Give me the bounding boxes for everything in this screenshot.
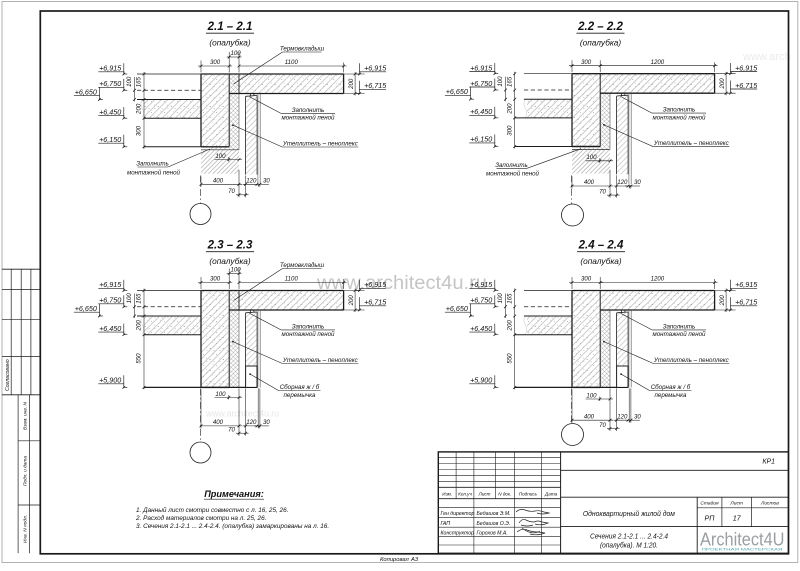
svg-text:Лист: Лист xyxy=(478,491,491,496)
elevation mark +5,900 xyxy=(469,375,498,388)
svg-text:Взам. инв. N: Взам. инв. N xyxy=(23,402,29,430)
title block grid xyxy=(438,452,788,553)
svg-text:(опалубка). М 1:20.: (опалубка). М 1:20. xyxy=(600,542,658,550)
left slab (concrete) 2.3 xyxy=(144,316,201,335)
slab and wall outline 2.1 xyxy=(137,73,201,75)
lower left wall edge 2.4 xyxy=(515,386,628,388)
left dimension chain 2.3 xyxy=(126,289,145,390)
dimension 1200 2.4 xyxy=(600,282,717,284)
elevation mark +6,915 xyxy=(356,63,387,75)
dimension 100 under wall 2.1 xyxy=(215,153,243,162)
left slab bottom edge 2.1 xyxy=(144,117,201,119)
svg-text:Термовкладыш: Термовкладыш xyxy=(280,262,325,269)
svg-text:+6,915: +6,915 xyxy=(364,280,387,289)
masonry below wall 2.2 xyxy=(572,150,610,174)
stage values xyxy=(704,514,741,523)
elevation mark +6,915 xyxy=(727,280,758,292)
elevation mark +6,150 xyxy=(469,134,498,147)
svg-text:30: 30 xyxy=(263,419,270,426)
svg-text:Согласовано: Согласовано xyxy=(5,359,11,391)
slab and wall outline 2.2 xyxy=(524,73,572,75)
svg-text:100: 100 xyxy=(215,153,226,160)
slab thickness dimension 200 2.4 xyxy=(715,289,736,313)
title block outline xyxy=(438,452,788,553)
left slab bottom edge 2.3 xyxy=(144,334,201,336)
svg-text:100: 100 xyxy=(497,76,504,87)
svg-text:+6,650: +6,650 xyxy=(446,304,468,313)
dimension 30 2.4 xyxy=(625,388,641,422)
svg-text:+6,150: +6,150 xyxy=(99,135,121,144)
svg-text:120: 120 xyxy=(246,178,257,185)
svg-text:(опалубка): (опалубка) xyxy=(580,256,622,266)
svg-text:+6,650: +6,650 xyxy=(75,88,97,97)
svg-text:165: 165 xyxy=(507,293,514,304)
dimension 100 under wall 2.2 xyxy=(586,154,614,163)
top dimension extension lines 2.4 xyxy=(571,277,573,289)
level line +6,650 2.2 xyxy=(524,98,572,100)
svg-text:1200: 1200 xyxy=(651,276,665,283)
lintel (precast r/c) 2.4 xyxy=(617,366,628,387)
label insulation penoplex 2.4 xyxy=(603,341,730,364)
svg-text:200: 200 xyxy=(136,320,143,332)
svg-text:1. Данный лист смотри совмест: 1. Данный лист смотри совместно с л. 16,… xyxy=(136,506,288,514)
elevation mark +6,915 xyxy=(356,280,387,292)
elevation mark +6,915 xyxy=(98,63,127,75)
dimension 100 (thermal insert) 2.3 xyxy=(227,273,242,275)
top dimension extension lines 2.2 xyxy=(571,60,573,72)
stage header xyxy=(700,501,779,507)
svg-text:N док.: N док. xyxy=(498,491,511,496)
left stamp table (lower) xyxy=(18,395,40,554)
svg-text:Горохов М.А.: Горохов М.А. xyxy=(477,530,508,536)
svg-text:Конструктор: Конструктор xyxy=(441,530,475,536)
svg-text:100: 100 xyxy=(215,391,226,398)
elevation mark +6,650 xyxy=(445,304,474,318)
insulation strip (penoplex) 2.3 xyxy=(229,291,239,388)
label thermal insert 2.1 xyxy=(234,46,325,85)
svg-text:2.4 – 2.4: 2.4 – 2.4 xyxy=(578,240,624,252)
foam joint under wall 2.2 xyxy=(572,149,610,151)
elevation mark +6,750 xyxy=(469,295,498,308)
elevation mark +6,750 xyxy=(98,295,127,308)
svg-text:+6,450: +6,450 xyxy=(470,324,492,333)
svg-text:+6,450: +6,450 xyxy=(470,107,492,116)
left stamp table (upper) xyxy=(2,269,40,395)
slab thickness dimension 200 2.3 xyxy=(344,289,365,313)
svg-text:+6,450: +6,450 xyxy=(99,107,121,116)
brick facing 120 strip 2.2 xyxy=(617,96,628,174)
svg-text:КР1: КР1 xyxy=(762,458,775,465)
svg-text:+5,900: +5,900 xyxy=(99,376,121,385)
svg-text:100: 100 xyxy=(231,267,242,274)
dimension 300 2.2 xyxy=(569,65,603,67)
dimension 400 2.4 xyxy=(571,388,613,431)
section title 2.4 xyxy=(577,240,625,266)
svg-text:Утеплитель – пеноплекс: Утеплитель – пеноплекс xyxy=(653,357,730,364)
level line +6,750 (dashed) 2.3 xyxy=(137,306,201,308)
svg-text:монтажной пеной: монтажной пеной xyxy=(486,171,540,178)
outer facing 30 lines 2.2 xyxy=(628,94,630,185)
svg-text:+6,150: +6,150 xyxy=(470,135,492,144)
dimension 30 2.3 xyxy=(254,388,270,428)
svg-text:70: 70 xyxy=(228,427,235,434)
svg-text:550: 550 xyxy=(135,353,142,364)
svg-text:+6,750: +6,750 xyxy=(99,79,121,88)
dimension 70 2.2 xyxy=(599,175,619,197)
dimension 300 2.1 xyxy=(198,65,232,67)
svg-text:70: 70 xyxy=(228,188,235,195)
label insulation penoplex 2.1 xyxy=(232,124,359,147)
svg-text:70: 70 xyxy=(599,189,606,196)
elevation mark +6,750 xyxy=(98,79,127,92)
svg-text:РП: РП xyxy=(704,514,715,523)
masonry below wall 2.1 xyxy=(201,150,239,174)
slab thickness dimension 200 2.2 xyxy=(715,72,736,96)
svg-text:400: 400 xyxy=(584,179,595,186)
svg-text:www.arch: www.arch xyxy=(742,51,791,63)
svg-text:200: 200 xyxy=(507,103,514,115)
dimension 120 2.2 xyxy=(614,179,631,187)
svg-text:Кол.уч: Кол.уч xyxy=(458,491,472,496)
svg-text:1100: 1100 xyxy=(285,276,299,283)
svg-text:А3: А3 xyxy=(410,557,419,563)
elevation mark +6,915 xyxy=(469,63,498,75)
left dimension chain 2.1 xyxy=(126,72,145,149)
dimension 120 2.3 xyxy=(243,419,260,427)
svg-text:300: 300 xyxy=(507,125,514,136)
svg-text:Копировал: Копировал xyxy=(380,557,410,563)
dimension 1100 2.3 xyxy=(239,282,347,284)
elevation mark +6,915 xyxy=(469,280,498,292)
svg-text:Утеплитель – пеноплекс: Утеплитель – пеноплекс xyxy=(653,140,730,147)
dimension 30 2.1 xyxy=(254,178,270,187)
elevation mark +6,650 xyxy=(74,304,103,318)
svg-text:ПРОЕКТНАЯ МАСТЕРСКАЯ: ПРОЕКТНАЯ МАСТЕРСКАЯ xyxy=(702,548,784,552)
svg-text:+6,915: +6,915 xyxy=(470,63,493,72)
notes header xyxy=(204,489,264,499)
svg-text:+6,650: +6,650 xyxy=(446,87,468,96)
label insulation penoplex 2.2 xyxy=(603,124,730,147)
dimension 30 2.2 xyxy=(625,179,641,188)
axis line 2.1 xyxy=(200,176,202,204)
insulation strip (penoplex) 2.4 xyxy=(600,310,610,387)
svg-text:Подпись: Подпись xyxy=(519,491,538,496)
svg-text:Листов: Листов xyxy=(760,501,779,507)
level line +6,750 (dashed) 2.2 xyxy=(524,89,572,91)
svg-text:+6,750: +6,750 xyxy=(470,296,492,305)
svg-text:+6,715: +6,715 xyxy=(735,81,758,90)
label precast lintel 2.4 xyxy=(620,373,691,399)
svg-text:200: 200 xyxy=(348,78,355,90)
svg-text:+6,715: +6,715 xyxy=(364,81,387,90)
svg-text:Одноквартирный жилой дом: Одноквартирный жилой дом xyxy=(583,509,675,518)
svg-text:165: 165 xyxy=(136,293,143,304)
svg-text:120: 120 xyxy=(617,179,628,186)
svg-text:165: 165 xyxy=(507,76,514,87)
svg-text:165: 165 xyxy=(136,77,143,88)
monolithic wall 2.2 xyxy=(572,74,600,147)
svg-text:300: 300 xyxy=(210,59,221,66)
svg-text:2.3 – 2.3: 2.3 – 2.3 xyxy=(207,240,253,252)
svg-text:300: 300 xyxy=(136,125,143,136)
foam joint under wall 2.1 xyxy=(201,149,239,151)
svg-text:100: 100 xyxy=(497,293,504,304)
svg-text:1200: 1200 xyxy=(651,59,665,66)
insulation strip (penoplex) 2.1 xyxy=(229,74,239,150)
svg-text:Architect4U: Architect4U xyxy=(700,528,785,549)
svg-text:монтажной пеной: монтажной пеной xyxy=(652,114,706,121)
svg-text:Сборная ж / б: Сборная ж / б xyxy=(280,384,320,391)
left slab (concrete) 2.1 xyxy=(144,100,201,119)
svg-text:100: 100 xyxy=(231,50,242,57)
dimension 100 (thermal insert) 2.1 xyxy=(227,56,242,58)
section title 2.2 xyxy=(577,21,625,47)
lower left wall edge 2.3 xyxy=(144,386,257,388)
svg-text:2. Расход материалов смотри н: 2. Расход материалов смотри на л. 25, 26… xyxy=(135,514,266,522)
sheet title xyxy=(590,533,668,549)
svg-text:400: 400 xyxy=(213,419,224,426)
slab and wall outline 2.4 xyxy=(524,290,572,292)
svg-text:200: 200 xyxy=(135,103,142,115)
svg-text:+6,915: +6,915 xyxy=(99,64,122,73)
svg-text:70: 70 xyxy=(599,422,606,429)
level line +6,650 2.3 xyxy=(137,315,201,317)
label fill with mounting foam (right) 2.2 xyxy=(621,97,706,122)
svg-text:+6,750: +6,750 xyxy=(99,296,121,305)
top dimension extension lines 2.3 xyxy=(200,277,202,289)
svg-text:+6,715: +6,715 xyxy=(364,298,387,307)
svg-text:120: 120 xyxy=(246,419,257,426)
svg-text:Заполнить: Заполнить xyxy=(663,107,696,114)
svg-text:Примечания:: Примечания: xyxy=(204,489,264,499)
svg-text:монтажной пеной: монтажной пеной xyxy=(127,169,181,176)
left dimension chain 2.2 xyxy=(497,72,516,149)
brick facing 120 strip 2.4 xyxy=(617,313,628,366)
level line +6,650 2.1 xyxy=(137,99,201,101)
foam ticks at facing top 2.4 xyxy=(620,310,622,313)
svg-text:Утеплитель – пеноплекс: Утеплитель – пеноплекс xyxy=(282,357,359,364)
svg-text:300: 300 xyxy=(581,276,592,283)
label fill with mounting foam (right) 2.4 xyxy=(621,313,706,338)
label precast lintel 2.3 xyxy=(249,373,320,399)
level line +6,750 (dashed) 2.1 xyxy=(137,89,201,91)
svg-text:монтажной пеной: монтажной пеной xyxy=(652,331,706,338)
foam ticks at facing top 2.1 xyxy=(249,94,251,97)
svg-text:100: 100 xyxy=(126,293,133,304)
svg-text:300: 300 xyxy=(581,59,592,66)
elevation mark +6,915 xyxy=(98,280,127,292)
section title 2.3 xyxy=(206,240,254,266)
elevation mark +6,715 xyxy=(356,81,387,95)
level line +6,750 (dashed) 2.4 xyxy=(524,306,572,308)
svg-text:Лист: Лист xyxy=(729,501,743,507)
floor slab 2.2 xyxy=(600,74,714,94)
outer facing 30 lines 2.3 xyxy=(257,310,259,387)
svg-text:Термовкладыш: Термовкладыш xyxy=(280,46,325,53)
svg-text:(опалубка): (опалубка) xyxy=(209,256,251,266)
axis line 2.3 xyxy=(200,388,202,442)
axis line 2.4 xyxy=(571,388,573,423)
monolithic wall 2.4 xyxy=(572,291,600,388)
svg-text:120: 120 xyxy=(617,413,628,420)
elevation mark +6,450 xyxy=(469,107,498,119)
left slab (concrete) 2.2 xyxy=(527,99,572,118)
title block signature rows xyxy=(441,511,511,536)
slab thickness dimension 200 2.1 xyxy=(344,72,365,96)
svg-text:400: 400 xyxy=(213,178,224,185)
svg-text:Изм.: Изм. xyxy=(442,491,452,496)
label insulation penoplex 2.3 xyxy=(232,341,359,364)
dimension 1100 2.1 xyxy=(239,65,347,67)
axis circle 2.4 xyxy=(562,424,584,446)
thermal insert outline 2.3 xyxy=(238,291,240,311)
lower left wall edge 2.1 xyxy=(144,146,201,148)
thermal insert outline 2.1 xyxy=(238,74,240,94)
axis circle 2.1 xyxy=(190,204,211,225)
elevation mark +5,900 xyxy=(98,375,127,388)
svg-text:200: 200 xyxy=(719,78,726,90)
svg-text:300: 300 xyxy=(210,276,221,283)
svg-text:100: 100 xyxy=(586,154,597,161)
section title 2.1 xyxy=(206,21,254,47)
slab and wall outline 2.3 xyxy=(137,290,201,292)
svg-text:Инв. N подл.: Инв. N подл. xyxy=(23,515,29,543)
svg-text:Бедашов О.Э.: Бедашов О.Э. xyxy=(477,521,511,527)
insulation strip (penoplex) 2.2 xyxy=(600,93,610,149)
svg-text:Стадия: Стадия xyxy=(700,501,719,507)
left slab bottom edge 2.4 xyxy=(515,334,572,336)
elevation mark +6,150 xyxy=(98,135,127,148)
dimension 70 2.3 xyxy=(228,388,248,435)
brick facing 120 strip 2.3 xyxy=(246,313,257,366)
svg-text:Заполнить: Заполнить xyxy=(292,107,325,114)
label fill with mounting foam (bottom left) 2.2 xyxy=(486,149,581,178)
elevation mark +6,450 xyxy=(98,324,127,336)
outer facing 30 lines 2.1 xyxy=(257,94,259,185)
svg-text:30: 30 xyxy=(634,179,641,186)
elevation mark +6,650 xyxy=(74,87,103,101)
dimension 400 2.2 xyxy=(571,170,613,198)
elevation mark +6,650 xyxy=(445,87,474,101)
label fill with mounting foam (right) 2.3 xyxy=(250,313,335,338)
top dimension extension lines 2.1 xyxy=(200,61,202,73)
left dimension chain 2.4 xyxy=(497,289,516,390)
svg-text:Сборная ж / б: Сборная ж / б xyxy=(651,384,691,391)
svg-text:+6,650: +6,650 xyxy=(75,304,97,313)
label fill with mounting foam (right) 2.1 xyxy=(250,97,335,122)
svg-text:+6,915: +6,915 xyxy=(470,280,493,289)
svg-text:100: 100 xyxy=(126,76,133,87)
dimension 300 2.3 xyxy=(198,282,232,284)
dimension 70 2.4 xyxy=(599,388,619,431)
dimension 100 under wall 2.3 xyxy=(215,391,243,400)
foam ticks at facing top 2.3 xyxy=(249,310,251,313)
dimension 1200 2.2 xyxy=(600,65,717,67)
monolithic wall 2.3 xyxy=(201,291,229,388)
svg-text:Заполнить: Заполнить xyxy=(663,323,696,330)
svg-text:Утеплитель – пеноплекс: Утеплитель – пеноплекс xyxy=(282,141,359,148)
svg-text:200: 200 xyxy=(507,320,514,332)
svg-text:+6,715: +6,715 xyxy=(735,298,758,307)
svg-text:перемычка: перемычка xyxy=(283,392,316,399)
elevation mark +6,450 xyxy=(469,324,498,336)
svg-text:+6,750: +6,750 xyxy=(470,79,492,88)
axis circle 2.3 xyxy=(190,442,211,463)
floor slab 2.3 xyxy=(239,291,344,311)
lower left wall edge 2.2 xyxy=(515,146,572,148)
svg-text:17: 17 xyxy=(733,514,742,523)
outer facing 30 lines 2.4 xyxy=(628,310,630,387)
svg-text:(опалубка): (опалубка) xyxy=(209,37,251,47)
dimension 300 2.4 xyxy=(569,282,603,284)
svg-text:Заполнить: Заполнить xyxy=(495,162,528,169)
elevation mark +6,715 xyxy=(727,297,758,311)
svg-text:30: 30 xyxy=(263,178,270,185)
dimension 100 under wall 2.4 xyxy=(586,392,614,401)
foam ticks at facing top 2.2 xyxy=(620,94,622,97)
svg-text:Сечения 2.1-2.1 ... 2.4-2.4: Сечения 2.1-2.1 ... 2.4-2.4 xyxy=(590,533,668,540)
lintel (precast r/c) 2.3 xyxy=(246,366,257,387)
svg-text:30: 30 xyxy=(634,413,641,420)
svg-text:Ген директор: Ген директор xyxy=(441,511,475,517)
elevation mark +6,915 xyxy=(727,63,758,75)
svg-text:(опалубка): (опалубка) xyxy=(580,37,622,47)
svg-text:+6,915: +6,915 xyxy=(735,63,758,72)
svg-text:3. Сечения 2.1-2.1 ... 2.4-2.: 3. Сечения 2.1-2.1 ... 2.4-2.4. (опалубк… xyxy=(136,522,329,530)
svg-text:200: 200 xyxy=(348,295,355,307)
svg-text:+5,900: +5,900 xyxy=(470,376,492,385)
svg-text:Подп. и дата: Подп. и дата xyxy=(23,456,29,486)
left slab bottom edge 2.2 xyxy=(515,117,572,119)
svg-text:1100: 1100 xyxy=(285,59,299,66)
monolithic wall 2.1 xyxy=(201,74,229,147)
svg-text:2.1 – 2.1: 2.1 – 2.1 xyxy=(207,21,253,33)
svg-text:www.architect4u.ru: www.architect4u.ru xyxy=(205,409,279,420)
brick facing 120 strip 2.1 xyxy=(246,96,257,174)
left slab (concrete) 2.4 xyxy=(527,316,572,335)
svg-text:ГАП: ГАП xyxy=(441,521,451,527)
svg-text:перемычка: перемычка xyxy=(654,392,687,399)
svg-text:2.2 – 2.2: 2.2 – 2.2 xyxy=(577,21,623,33)
dimension 400 2.3 xyxy=(200,388,242,435)
elevation mark +6,715 xyxy=(356,297,387,311)
label fill with mounting foam (bottom left) 2.1 xyxy=(127,149,210,176)
elevation mark +6,750 xyxy=(469,79,498,92)
svg-text:200: 200 xyxy=(719,295,726,307)
svg-text:550: 550 xyxy=(506,353,513,364)
svg-text:Дата: Дата xyxy=(544,491,558,496)
svg-text:монтажной пеной: монтажной пеной xyxy=(281,331,335,338)
floor slab 2.4 xyxy=(600,291,714,311)
svg-text:+6,915: +6,915 xyxy=(364,64,387,73)
svg-text:Заполнить: Заполнить xyxy=(292,323,325,330)
label thermal insert 2.3 xyxy=(234,262,325,301)
svg-text:+6,915: +6,915 xyxy=(735,280,758,289)
svg-text:+6,915: +6,915 xyxy=(99,280,122,289)
dimension 120 2.4 xyxy=(614,413,631,421)
dimension 120 2.1 xyxy=(243,178,260,186)
dimension 400 2.1 xyxy=(200,170,242,197)
svg-text:400: 400 xyxy=(584,413,595,420)
level line +6,650 2.4 xyxy=(524,315,572,317)
svg-text:Заполнить: Заполнить xyxy=(136,161,169,168)
svg-text:монтажной пеной: монтажной пеной xyxy=(281,115,335,122)
axis line 2.2 xyxy=(571,175,573,204)
floor slab 2.1 xyxy=(239,74,344,94)
signature squiggles xyxy=(516,509,549,534)
elevation mark +6,715 xyxy=(727,81,758,95)
svg-text:Бедашов Э.М.: Бедашов Э.М. xyxy=(477,511,511,517)
